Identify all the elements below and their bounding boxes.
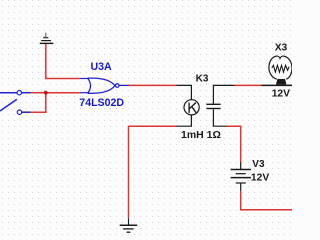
wire coil to ground GND2 xyxy=(129,126,177,218)
svg-text:X3: X3 xyxy=(275,43,288,54)
svg-text:V3: V3 xyxy=(252,159,265,170)
svg-text:U3A: U3A xyxy=(91,61,113,73)
switch bottom throw contact xyxy=(17,110,21,114)
junction node xyxy=(44,91,48,95)
svg-text:74LS02D: 74LS02D xyxy=(79,97,124,109)
switch pole lead (from left edge) xyxy=(0,92,17,94)
wire ground GND1 to gate input A xyxy=(46,44,80,78)
wire junction to gate input B xyxy=(46,92,80,94)
switch top contact stub xyxy=(22,92,31,94)
svg-text:12V: 12V xyxy=(272,89,290,100)
svg-text:K3: K3 xyxy=(196,73,209,84)
switch bottom contact stub xyxy=(22,111,31,113)
switch lever xyxy=(0,99,17,111)
wire contact to battery V3 xyxy=(227,126,241,162)
ground GND1 (top, flipped) xyxy=(40,33,54,44)
lamp X3 xyxy=(262,56,293,85)
wire battery to bottom-right edge xyxy=(241,191,292,210)
relay K3 coil letter K xyxy=(189,103,196,113)
relay K3 coil branch xyxy=(177,85,200,126)
wire contact top to lamp X3 xyxy=(235,84,262,86)
relay K3 contact branch xyxy=(206,85,234,126)
wire gate output to relay coil xyxy=(129,84,177,86)
battery V3 xyxy=(231,162,251,191)
svg-text:12V: 12V xyxy=(251,173,269,184)
wire junction down to bottom contact xyxy=(31,93,46,113)
svg-text:1mH 1Ω: 1mH 1Ω xyxy=(181,129,221,141)
wire top contact to junction xyxy=(31,92,46,94)
NOR gate U3A (74LS02D) body and pins xyxy=(80,78,129,93)
switch top throw contact xyxy=(17,91,21,95)
ground GND2 (bottom) xyxy=(120,218,138,232)
